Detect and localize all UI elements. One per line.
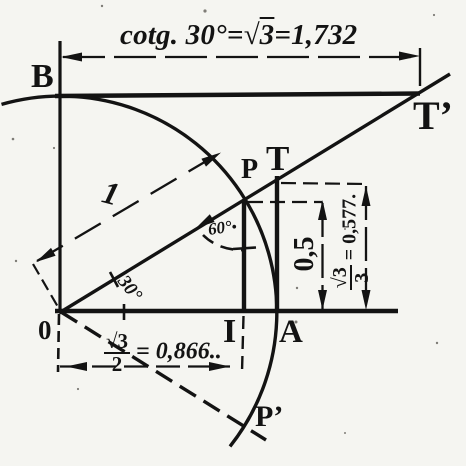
arrow on ray for 60 degree arc [196, 214, 215, 228]
0.577 dimension vertical line [365, 186, 367, 309]
angle value 60 [207, 217, 238, 239]
cotg extension tick at T' [419, 48, 421, 86]
radius value 1 [99, 175, 123, 210]
point label T' [413, 96, 453, 136]
point label P' [255, 402, 283, 432]
dashed extension from T [281, 183, 366, 184]
tangent line at B [55, 94, 420, 97]
value sqrt3/2 = 0,866 [104, 332, 222, 374]
arrow left of cotg dimension [61, 53, 82, 62]
dashed extension from P [248, 201, 322, 203]
arrow top of 0.5 dimension [318, 200, 327, 220]
horizontal axis OA [55, 309, 398, 314]
value sqrt3/3 = 0,577 rotated [331, 192, 371, 292]
value 0,5 rotated [291, 232, 319, 276]
30 degree tick on ray OP [110, 272, 118, 287]
segment PI [242, 201, 246, 311]
arrow bottom of 0.5 dimension [318, 290, 327, 310]
arrow upper end of radius dimension [201, 153, 221, 167]
arrow right of 0.866 dimension [209, 362, 230, 371]
unit circle arc [2, 96, 277, 446]
30 degree tick on axis [123, 304, 126, 320]
point label P [241, 156, 258, 184]
0.5 dimension vertical line [321, 203, 323, 309]
point label T [266, 141, 289, 176]
extension dash from O for radius dimension [33, 264, 58, 307]
0.866 dimension line [60, 365, 230, 367]
vertical axis dashed below O [58, 314, 59, 372]
point label 0 (origin) [38, 317, 52, 344]
0.866 extension tick at I [242, 316, 244, 372]
arrow left of 0.866 dimension [66, 362, 87, 371]
arrow top of 0.577 dimension [362, 186, 371, 206]
vertical axis OB [58, 41, 61, 312]
ray O-P-T-T' [59, 74, 450, 313]
segment TA [275, 176, 279, 311]
arrow right of cotg dimension [399, 52, 420, 61]
point label B [31, 60, 54, 94]
angle value 30 [114, 272, 145, 305]
dashed segment O-P' [61, 312, 266, 440]
radius dimension line labelled 1 [37, 153, 220, 261]
arrow bottom of 0.577 dimension [362, 290, 371, 310]
point label A [279, 316, 303, 349]
point label I [223, 315, 236, 349]
formula cotg. 30 = sqrt3 = 1,732 [120, 21, 357, 50]
cotg dimension line [63, 56, 420, 58]
60 degree arc end tick on PI [233, 248, 256, 250]
60 degree dashed arc at P [203, 235, 246, 250]
arrow lower end of radius dimension [36, 248, 56, 262]
